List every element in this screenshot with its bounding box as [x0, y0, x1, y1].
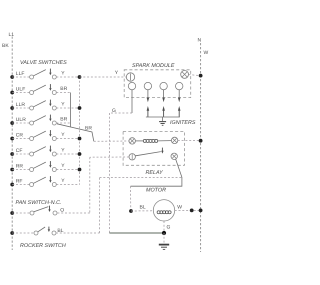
label RR	[16, 164, 24, 170]
label Y output of CR	[61, 132, 65, 138]
svg-text:Y: Y	[61, 71, 65, 77]
svg-text:LLF: LLF	[16, 71, 25, 77]
svg-text:W: W	[204, 50, 209, 56]
svg-text:O: O	[60, 208, 64, 214]
junction N / motor	[199, 209, 203, 213]
junction N / relay	[199, 139, 203, 143]
wire BR net to relay coil	[94, 140, 129, 142]
spark module electrode terminal 2	[144, 82, 151, 97]
junction L1 / switch ULF	[10, 91, 14, 95]
label W wire color (N rail)	[204, 50, 209, 56]
svg-text:G: G	[112, 108, 116, 114]
label LLF	[16, 71, 25, 77]
junction L1 / switch CF	[10, 152, 14, 156]
wire rocker to relay contact (BL feed)	[56, 178, 182, 234]
wire Y bus vertical	[79, 77, 81, 185]
wire BL to motor	[131, 210, 153, 212]
label O pan switch output	[60, 208, 64, 214]
label CR	[16, 133, 24, 139]
svg-text:Y: Y	[61, 102, 65, 108]
wire BR net vertical	[70, 93, 72, 127]
junction L1 / switch LLF	[10, 75, 14, 79]
wire ULR to BR net	[56, 122, 70, 124]
label BR output of ULR	[60, 117, 67, 123]
relay coil terminal A	[129, 138, 135, 144]
spark module electrode terminal 1	[128, 82, 135, 113]
wire ULF to BR net	[56, 92, 70, 94]
label BR output of ULF	[60, 86, 67, 92]
svg-text:G: G	[167, 225, 171, 231]
ground main	[159, 233, 169, 249]
wire L1 to rocker switch	[12, 232, 34, 234]
pan switch title	[16, 200, 62, 206]
wire relay coil B to N	[178, 140, 201, 142]
wire down to BL junction	[130, 186, 132, 211]
motor title	[146, 188, 166, 194]
relay contact blade	[135, 148, 163, 156]
svg-text:BK: BK	[2, 43, 9, 49]
wire LLF to Y bus	[56, 76, 79, 78]
svg-text:BR: BR	[60, 86, 67, 92]
label G spark module	[112, 108, 116, 114]
label CF	[16, 148, 23, 154]
junction Y bus y=138.5	[78, 137, 82, 141]
junction L1 / switch LLR	[10, 106, 14, 110]
junction L1 / switch CR	[10, 137, 14, 141]
junction L1 / pan switch	[10, 211, 14, 215]
svg-text:PAN SWITCH-N.C.: PAN SWITCH-N.C.	[16, 200, 62, 206]
relay box	[123, 131, 184, 165]
wire L1 to switch RF	[12, 184, 29, 186]
junction L1 / switch ULR	[10, 121, 14, 125]
switch CF valve switch	[30, 146, 57, 156]
label Y at spark module input	[115, 70, 119, 76]
svg-text:RELAY: RELAY	[146, 170, 164, 176]
svg-text:CF: CF	[16, 148, 23, 154]
motor M1	[153, 200, 174, 221]
wire RF to Y bus	[56, 184, 79, 186]
svg-text:W: W	[177, 205, 182, 211]
svg-text:ULF: ULF	[16, 87, 25, 93]
switch CR valve switch	[30, 130, 57, 140]
label Y output of LLF	[61, 71, 65, 77]
wire L1 to switch LLF	[12, 76, 29, 78]
relay coil K1	[135, 139, 171, 142]
wire spark module G down	[109, 113, 132, 233]
svg-text:IGNITERS: IGNITERS	[170, 120, 196, 126]
wire CR to Y bus	[56, 138, 79, 140]
label ULF	[16, 87, 25, 93]
svg-text:Y: Y	[61, 178, 65, 184]
svg-text:ULR: ULR	[16, 117, 26, 123]
svg-text:VALVE SWITCHES: VALVE SWITCHES	[20, 60, 67, 66]
svg-text:MOTOR: MOTOR	[146, 188, 166, 194]
igniters title	[170, 120, 196, 126]
wire L1 to switch CR	[12, 138, 29, 140]
junction Y bus y=169.5	[78, 168, 82, 172]
wire spark module OUT to N	[189, 75, 201, 76]
junction ground node	[162, 231, 166, 235]
junction L1 / switch RR	[10, 168, 14, 172]
svg-text:Y: Y	[61, 148, 65, 154]
label ULR	[16, 117, 26, 123]
svg-text:BL: BL	[140, 205, 146, 211]
relay contact common terminal	[129, 154, 135, 160]
junction L1 / switch RF	[10, 183, 14, 187]
svg-text:L1: L1	[9, 32, 15, 38]
wire N rail	[200, 43, 202, 252]
switch LLF valve switch	[30, 69, 57, 79]
label Y output of RR	[61, 163, 65, 169]
label Y output of RF	[61, 178, 65, 184]
label BL motor	[140, 205, 146, 211]
junction Y bus y=154	[78, 152, 82, 156]
svg-text:RR: RR	[16, 164, 24, 170]
svg-text:BR: BR	[85, 126, 92, 132]
wire L1 to switch RR	[12, 169, 29, 171]
label Y output of CF	[61, 148, 65, 154]
wire igniter common bus	[146, 116, 180, 118]
junction L1 / rocker switch	[10, 231, 14, 235]
rocker switch	[34, 227, 56, 235]
label BL rocker output	[57, 228, 63, 234]
spark module box	[124, 70, 191, 98]
label Y output of LLR	[61, 102, 65, 108]
label G motor	[167, 225, 171, 231]
switch RR valve switch	[30, 161, 57, 171]
wire LLR to Y bus	[56, 107, 79, 109]
relay coil terminal B	[171, 137, 177, 143]
wire relay contact to pan switch	[57, 157, 129, 213]
wire G horizontal to ground junction	[109, 232, 164, 234]
igniter spark gap 1	[147, 98, 150, 118]
switch ULF valve switch	[30, 84, 57, 94]
wire relay contact NO to motor BL node	[131, 159, 182, 186]
wire L1 to pan switch	[12, 212, 30, 214]
junction Y bus y=108	[78, 106, 82, 110]
pan switch N.C.	[30, 206, 57, 215]
svg-text:SPARK MODULE: SPARK MODULE	[132, 63, 175, 69]
svg-text:LLR: LLR	[16, 102, 26, 108]
valve switches title	[20, 60, 67, 66]
wire L1 to switch ULR	[12, 122, 29, 124]
svg-text:Y: Y	[115, 70, 119, 76]
relay contact NO terminal	[171, 153, 177, 159]
svg-text:RF: RF	[16, 179, 23, 185]
igniter spark gap 2	[162, 98, 165, 118]
wire L1 to switch ULF	[12, 92, 29, 94]
junction Y bus y=77	[78, 75, 82, 79]
spark module electrode terminal 3	[160, 82, 167, 97]
spark module terminal IN (slot screw)	[126, 73, 134, 81]
junction BL node	[129, 209, 133, 213]
wire L1 rail	[11, 37, 13, 251]
wire Y bus to spark module	[80, 76, 127, 78]
svg-text:Y: Y	[61, 132, 65, 138]
spark module title	[132, 63, 175, 69]
switch RF valve switch	[30, 176, 57, 186]
label LLR	[16, 102, 26, 108]
junction motor W wire	[190, 209, 194, 213]
label RF	[16, 179, 23, 185]
wire L1 to switch CF	[12, 153, 29, 155]
switch LLR valve switch	[30, 100, 57, 110]
label W motor	[177, 205, 182, 211]
spark module electrode terminal 4	[176, 82, 183, 97]
igniter spark gap 3	[178, 98, 181, 118]
wire L1 to switch LLR	[12, 107, 29, 109]
node N label	[198, 38, 202, 44]
svg-text:ROCKER SWITCH: ROCKER SWITCH	[20, 243, 66, 249]
svg-text:BR: BR	[60, 117, 67, 123]
junction N / spark module	[199, 74, 203, 78]
relay title	[146, 170, 164, 176]
wire RR to Y bus	[56, 169, 79, 171]
wire BR net diagonal	[57, 124, 94, 142]
svg-text:N: N	[198, 38, 202, 44]
label BR net	[85, 126, 92, 132]
wire motor to N	[175, 209, 201, 211]
ground igniter	[159, 117, 166, 125]
wire CF to Y bus	[56, 153, 79, 155]
spark module terminal OUT (cross screw)	[181, 71, 189, 79]
label BK wire color	[2, 43, 9, 49]
node L1 label	[9, 32, 15, 38]
switch ULR valve switch	[30, 115, 57, 125]
wire motor G down	[163, 221, 165, 233]
svg-text:CR: CR	[16, 133, 24, 139]
rocker switch title	[20, 243, 66, 249]
svg-text:Y: Y	[61, 163, 65, 169]
